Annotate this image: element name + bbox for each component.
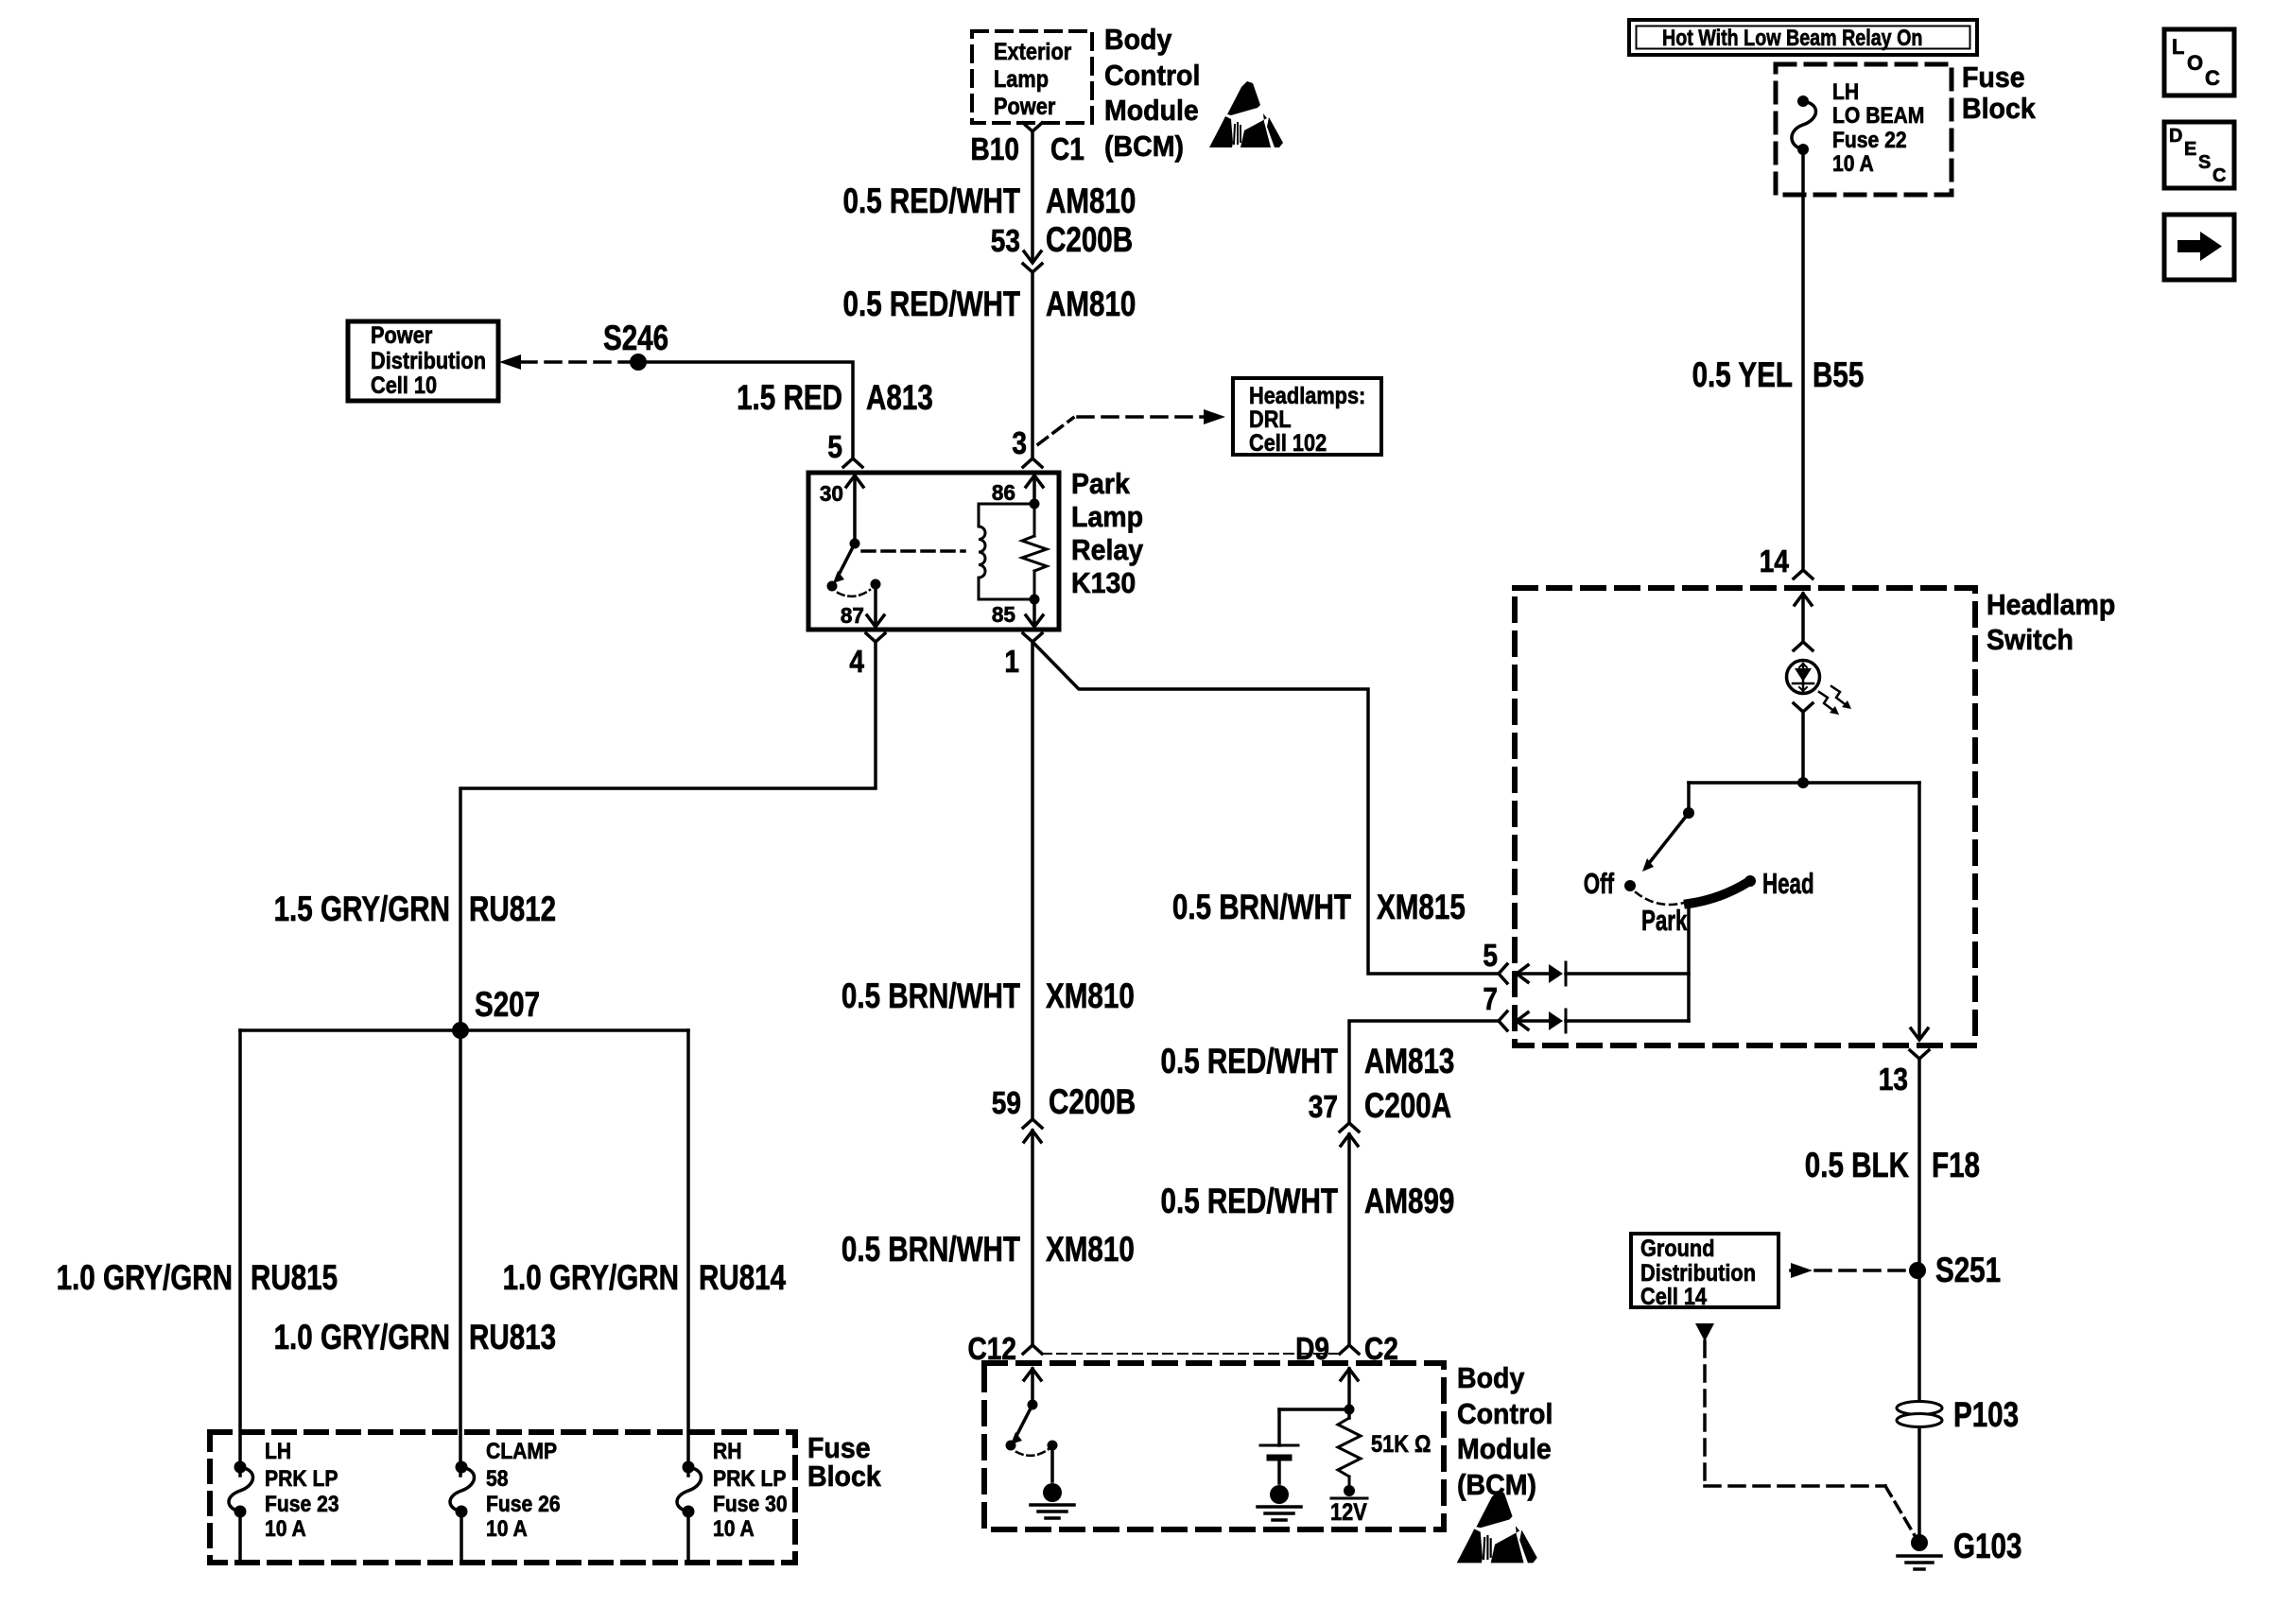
svg-text:Switch: Switch xyxy=(1987,623,2073,656)
splice S207 xyxy=(452,985,540,1039)
svg-text:A813: A813 xyxy=(866,378,933,417)
svg-text:Hot With Low Beam Relay On: Hot With Low Beam Relay On xyxy=(1662,26,1922,51)
switch output wire to pin 13 xyxy=(1917,783,1921,1037)
svg-text:Fuse: Fuse xyxy=(1962,60,2025,94)
switch Park terminal label xyxy=(1641,904,1688,937)
BCM output box Exterior Lamp Power xyxy=(972,31,1092,123)
BCM internal battery xyxy=(1260,1409,1298,1483)
splice S251 xyxy=(1909,1251,2001,1289)
label 1.0 GRY/GRN RU814 xyxy=(503,1258,787,1297)
switch Head terminal label xyxy=(1762,867,1814,900)
svg-text:DRL: DRL xyxy=(1249,406,1292,433)
BCM switch ground terminal xyxy=(1048,1441,1058,1482)
svg-text:1.5 RED: 1.5 RED xyxy=(737,378,842,417)
fuse F23 LH PRK LP xyxy=(229,1439,339,1563)
svg-text:G103: G103 xyxy=(1953,1527,2021,1565)
wire 1.5 RED A813 xyxy=(638,362,853,457)
dashed reference arrow below box xyxy=(1695,1323,1916,1537)
label 0.5 RED/WHT AM813 xyxy=(1161,1042,1455,1080)
svg-text:1.0 GRY/GRN: 1.0 GRY/GRN xyxy=(274,1318,450,1356)
svg-text:Module: Module xyxy=(1104,94,1199,127)
svg-text:Control: Control xyxy=(1104,59,1200,92)
pin 14 connector at headlamp switch xyxy=(1760,544,1813,579)
svg-text:1: 1 xyxy=(1004,644,1019,679)
svg-text:59: 59 xyxy=(992,1085,1021,1120)
svg-text:Off: Off xyxy=(1584,867,1615,900)
label 0.5 RED/WHT AM899 xyxy=(1161,1182,1455,1220)
label 1.5 GRY/GRN RU812 xyxy=(274,890,556,928)
svg-text:S: S xyxy=(2198,152,2211,173)
svg-text:PRK LP: PRK LP xyxy=(265,1466,338,1492)
park lamp relay K130 enclosure xyxy=(808,467,1144,630)
svg-text:AM810: AM810 xyxy=(1046,285,1136,323)
svg-text:PRK LP: PRK LP xyxy=(713,1466,787,1492)
connector C200A pin 37 xyxy=(1309,1086,1451,1146)
pin 14 entry arrow xyxy=(1795,594,1812,640)
label 0.5 YEL B55 xyxy=(1692,355,1865,394)
svg-text:10 A: 10 A xyxy=(265,1516,306,1542)
wire 1.0 GRY/GRN RU815 xyxy=(238,1030,242,1476)
svg-text:O: O xyxy=(2187,51,2203,75)
svg-text:L: L xyxy=(2172,35,2184,59)
wire 0.5 BRN/WHT XM815 xyxy=(1034,644,1497,974)
svg-text:RU815: RU815 xyxy=(251,1258,338,1297)
splice S207 distribution wire xyxy=(240,1028,688,1032)
svg-text:10 A: 10 A xyxy=(1832,151,1874,177)
svg-text:AM813: AM813 xyxy=(1364,1042,1454,1080)
pin 13 exit arrow xyxy=(1911,1028,1928,1040)
indicator LED lamp xyxy=(1787,661,1852,716)
svg-text:Fuse 30: Fuse 30 xyxy=(713,1492,788,1517)
svg-text:85: 85 xyxy=(992,602,1015,627)
ESD sensitive device symbol (top) xyxy=(1209,81,1283,147)
switch common stub xyxy=(1687,783,1691,811)
svg-text:7: 7 xyxy=(1483,981,1498,1016)
svg-text:(BCM): (BCM) xyxy=(1104,130,1184,163)
switch pivot node xyxy=(1683,807,1694,819)
BCM internal switch xyxy=(1006,1400,1038,1451)
BCM connector dashed tie line xyxy=(1042,1353,1340,1355)
svg-text:53: 53 xyxy=(991,223,1020,258)
ESD sensitive device symbol (bottom) xyxy=(1457,1491,1537,1563)
reference box DESC xyxy=(2164,122,2234,188)
svg-text:C: C xyxy=(2212,165,2226,186)
svg-text:Cell 102: Cell 102 xyxy=(1249,430,1327,457)
svg-text:12V: 12V xyxy=(1330,1499,1367,1526)
switch Park output wire xyxy=(1687,904,1691,1021)
svg-text:1.0 GRY/GRN: 1.0 GRY/GRN xyxy=(57,1258,233,1297)
svg-text:AM899: AM899 xyxy=(1364,1182,1454,1220)
svg-text:0.5 BRN/WHT: 0.5 BRN/WHT xyxy=(842,976,1020,1015)
svg-text:1.0 GRY/GRN: 1.0 GRY/GRN xyxy=(503,1258,679,1297)
BCM switch travel arc xyxy=(1016,1449,1049,1456)
svg-text:B10: B10 xyxy=(971,131,1020,166)
svg-text:3: 3 xyxy=(1012,425,1027,460)
svg-text:Park: Park xyxy=(1641,904,1688,937)
label 1.5 RED A813 xyxy=(737,378,933,417)
switch Off terminal xyxy=(1584,867,1636,900)
relay switch arm xyxy=(827,544,856,592)
label 0.5 BLK F18 xyxy=(1805,1146,1980,1184)
pin C12 connector cup xyxy=(968,1331,1043,1366)
svg-text:Block: Block xyxy=(1962,92,2036,125)
dashed reference arrow to S251 xyxy=(1791,1263,1906,1278)
relay coil xyxy=(979,499,1040,605)
svg-text:5: 5 xyxy=(827,429,842,464)
ground distribution reference box xyxy=(1631,1234,1778,1310)
fuse F30 RH PRK LP xyxy=(677,1439,788,1563)
BCM C12 entry arrow xyxy=(1024,1369,1041,1405)
svg-text:S251: S251 xyxy=(1935,1251,2001,1289)
splice S246 xyxy=(603,319,668,371)
relay coil suppression resistor xyxy=(1022,504,1047,599)
BCM C2 entry arrow xyxy=(1341,1369,1358,1418)
relay pin 4 connector xyxy=(849,633,885,679)
svg-text:0.5 RED/WHT: 0.5 RED/WHT xyxy=(843,285,1021,323)
svg-text:K130: K130 xyxy=(1071,566,1136,599)
svg-text:LH: LH xyxy=(265,1439,291,1464)
pin 7 internal wire xyxy=(1566,1019,1689,1023)
connector C200B pin 59 xyxy=(992,1082,1136,1142)
svg-text:RU813: RU813 xyxy=(469,1318,556,1356)
connector C200B pin 53 xyxy=(991,220,1133,272)
svg-text:Fuse 26: Fuse 26 xyxy=(486,1492,561,1517)
svg-text:RU814: RU814 xyxy=(699,1258,786,1297)
relay pin 5 connector xyxy=(827,429,862,467)
pin B10/C1 connector cup xyxy=(971,123,1084,166)
svg-text:CLAMP: CLAMP xyxy=(486,1439,557,1464)
svg-text:RU812: RU812 xyxy=(469,890,556,928)
svg-text:Distribution: Distribution xyxy=(371,348,486,374)
wire 0.5 RED/WHT AM899 xyxy=(1347,1134,1351,1343)
label 0.5 BRN/WHT XM815 xyxy=(1172,888,1466,926)
dashed reference arrow from S246 xyxy=(499,354,630,370)
svg-text:Relay: Relay xyxy=(1071,533,1144,566)
svg-text:Fuse 23: Fuse 23 xyxy=(265,1492,339,1517)
svg-text:4: 4 xyxy=(849,644,864,679)
wire 0.5 YEL B55 xyxy=(1801,149,1805,568)
svg-text:C200B: C200B xyxy=(1049,1082,1136,1121)
svg-text:30: 30 xyxy=(820,481,843,506)
switch feed wire xyxy=(1689,781,1919,785)
label 1.0 GRY/GRN RU815 xyxy=(57,1258,338,1297)
ground G103 xyxy=(1898,1527,2021,1569)
svg-text:0.5 RED/WHT: 0.5 RED/WHT xyxy=(1161,1042,1339,1080)
svg-text:86: 86 xyxy=(992,480,1015,505)
svg-text:Head: Head xyxy=(1762,867,1814,900)
svg-text:37: 37 xyxy=(1309,1089,1338,1124)
switch wiper arm to Off xyxy=(1642,813,1689,872)
pin 7 diode xyxy=(1549,1010,1566,1032)
pin 5 diode xyxy=(1549,962,1566,985)
pin 5 internal wire xyxy=(1566,972,1689,976)
power feed banner Hot With Low Beam Relay On xyxy=(1629,20,1977,55)
headlamp switch enclosure xyxy=(1515,588,2115,1045)
wire 0.5 RED/WHT AM810 upper xyxy=(1031,131,1034,259)
switch feed junction node xyxy=(1797,777,1809,788)
svg-text:C1: C1 xyxy=(1050,131,1084,166)
svg-text:Power: Power xyxy=(371,322,433,349)
svg-text:13: 13 xyxy=(1879,1062,1908,1097)
svg-text:Headlamp: Headlamp xyxy=(1987,588,2115,621)
svg-text:Fuse 22: Fuse 22 xyxy=(1832,128,1907,153)
relay switch travel arc xyxy=(838,590,870,596)
indicator lamp socket cup upper xyxy=(1794,642,1813,650)
pin 7 entry arrow xyxy=(1517,1012,1548,1029)
svg-text:E: E xyxy=(2184,139,2196,160)
wire 1.0 GRY/GRN RU813 xyxy=(459,1030,462,1476)
svg-text:0.5 RED/WHT: 0.5 RED/WHT xyxy=(843,181,1021,220)
svg-text:RH: RH xyxy=(713,1439,742,1464)
svg-text:S246: S246 xyxy=(603,319,668,357)
svg-text:0.5 RED/WHT: 0.5 RED/WHT xyxy=(1161,1182,1339,1220)
svg-text:Module: Module xyxy=(1457,1432,1552,1465)
label Body Control Module (BCM) xyxy=(1104,23,1200,163)
relay pin 86 terminal xyxy=(992,475,1043,505)
relay actuation dashed link xyxy=(862,549,964,553)
inline connector P103 xyxy=(1897,1395,2019,1434)
svg-text:0.5 BLK: 0.5 BLK xyxy=(1805,1146,1909,1184)
wire 0.5 BLK F18 xyxy=(1917,1059,1921,1541)
svg-text:10 A: 10 A xyxy=(486,1516,528,1542)
wire 0.5 RED/WHT AM810 lower xyxy=(1031,272,1034,457)
svg-text:10 A: 10 A xyxy=(713,1516,755,1542)
svg-text:Lamp: Lamp xyxy=(994,66,1049,93)
svg-text:Lamp: Lamp xyxy=(1071,500,1143,533)
BCM pull-up resistor 51K xyxy=(1338,1418,1431,1488)
pin 5 entry arrow xyxy=(1517,965,1548,982)
svg-text:Body: Body xyxy=(1104,23,1172,56)
fuse F26 CLAMP 58 xyxy=(450,1439,561,1563)
svg-text:Control: Control xyxy=(1457,1397,1553,1430)
svg-text:C200A: C200A xyxy=(1364,1086,1451,1125)
svg-text:Cell 10: Cell 10 xyxy=(371,372,437,399)
svg-text:87: 87 xyxy=(841,603,864,628)
reference box LOC xyxy=(2164,29,2234,95)
svg-text:Ground: Ground xyxy=(1640,1235,1715,1262)
svg-text:Exterior: Exterior xyxy=(994,39,1071,65)
BCM internal ground (switch) xyxy=(1031,1483,1074,1518)
switch travel arc Off to Park xyxy=(1636,892,1684,905)
pin 13 connector cup xyxy=(1879,1050,1929,1097)
wire 0.5 BRN/WHT XM810 lower xyxy=(1031,1131,1034,1343)
svg-text:B55: B55 xyxy=(1813,355,1864,394)
pin 5 label xyxy=(1483,938,1498,973)
svg-text:Distribution: Distribution xyxy=(1640,1260,1756,1287)
pin 5 connector cup xyxy=(1499,964,1507,983)
svg-text:Power: Power xyxy=(994,94,1056,120)
svg-text:AM810: AM810 xyxy=(1046,181,1136,220)
fuse F22 LH LO BEAM xyxy=(1792,79,1924,177)
svg-text:C200B: C200B xyxy=(1046,220,1133,259)
label 0.5 BRN/WHT XM810 (2) xyxy=(842,1230,1135,1269)
label 0.5 RED/WHT AM810 (2) xyxy=(843,285,1136,323)
relay pin 30 terminal xyxy=(820,475,863,549)
svg-text:0.5 YEL: 0.5 YEL xyxy=(1692,355,1793,394)
svg-text:XM810: XM810 xyxy=(1046,976,1135,1015)
svg-text:S207: S207 xyxy=(475,985,540,1024)
svg-text:5: 5 xyxy=(1483,938,1498,973)
relay pin 1 connector xyxy=(1004,633,1042,679)
relay pin 85 terminal xyxy=(992,599,1043,627)
BCM 12V rail xyxy=(1330,1485,1367,1526)
svg-text:XM810: XM810 xyxy=(1046,1230,1135,1269)
svg-text:14: 14 xyxy=(1760,544,1790,579)
pin 7 label xyxy=(1483,981,1498,1016)
label 0.5 BRN/WHT XM810 (1) xyxy=(842,976,1135,1015)
wire 1.5 GRY/GRN RU812 xyxy=(460,642,876,1028)
pin C2 connector cup xyxy=(1295,1331,1398,1366)
indicator lamp socket cup lower xyxy=(1794,703,1813,783)
BCM battery feed wire xyxy=(1279,1405,1355,1415)
svg-text:F18: F18 xyxy=(1932,1146,1980,1184)
svg-text:P103: P103 xyxy=(1953,1395,2019,1434)
svg-text:Block: Block xyxy=(807,1460,881,1493)
svg-text:Body: Body xyxy=(1457,1361,1525,1394)
switch Park-Head contact band xyxy=(1689,875,1756,904)
svg-text:LO BEAM: LO BEAM xyxy=(1832,103,1924,129)
relay pin 87 terminal xyxy=(841,579,884,629)
wire 1.0 GRY/GRN RU814 xyxy=(686,1030,690,1476)
label 0.5 RED/WHT AM810 (1) xyxy=(843,181,1136,220)
label 1.0 GRY/GRN RU813 xyxy=(274,1318,556,1356)
svg-text:58: 58 xyxy=(486,1466,509,1492)
power distribution reference box xyxy=(348,321,498,401)
fuse block (top right) enclosure xyxy=(1776,60,2036,195)
wire 0.5 BRN/WHT XM810 upper xyxy=(1031,642,1034,1117)
body control module enclosure xyxy=(984,1361,1553,1529)
BCM internal ground (battery) xyxy=(1258,1485,1301,1520)
relay pin 3 connector xyxy=(1012,425,1042,467)
svg-text:LH: LH xyxy=(1832,79,1859,105)
svg-text:0.5 BRN/WHT: 0.5 BRN/WHT xyxy=(1172,888,1351,926)
headlamps DRL reference box xyxy=(1233,378,1381,457)
reference box forward arrow xyxy=(2164,215,2234,280)
svg-text:Park: Park xyxy=(1071,467,1130,500)
svg-text:0.5 BRN/WHT: 0.5 BRN/WHT xyxy=(842,1230,1020,1269)
fuse block (bottom) enclosure xyxy=(210,1431,881,1563)
svg-text:51K Ω: 51K Ω xyxy=(1371,1431,1431,1458)
pin 7 connector cup xyxy=(1499,1011,1507,1030)
svg-text:1.5 GRY/GRN: 1.5 GRY/GRN xyxy=(274,890,450,928)
svg-text:D: D xyxy=(2169,126,2182,147)
svg-text:Headlamps:: Headlamps: xyxy=(1249,383,1365,409)
dashed reference arrow to DRL xyxy=(1038,409,1225,444)
svg-text:XM815: XM815 xyxy=(1377,888,1466,926)
svg-text:C: C xyxy=(2205,66,2220,90)
wire 0.5 RED/WHT AM813 xyxy=(1349,1021,1497,1121)
svg-text:Cell 14: Cell 14 xyxy=(1640,1284,1707,1310)
